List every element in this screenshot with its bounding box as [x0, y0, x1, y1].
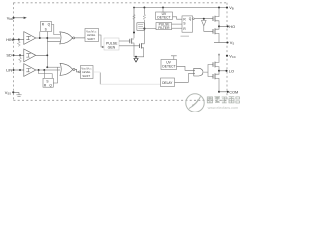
svg-text:FILTER: FILTER — [158, 26, 170, 30]
svg-text:GEN: GEN — [108, 46, 116, 50]
svg-text:LO: LO — [229, 68, 234, 73]
svg-text:SD: SD — [6, 53, 12, 58]
svg-text:LEVEL: LEVEL — [87, 33, 96, 37]
svg-text:LIN: LIN — [6, 67, 12, 72]
svg-text:HO: HO — [229, 24, 235, 29]
svg-text:DELAY: DELAY — [162, 81, 173, 85]
svg-text:S: S — [46, 80, 48, 84]
svg-text:DETECT: DETECT — [157, 16, 170, 20]
svg-text:S: S — [183, 22, 185, 26]
svg-text:DETECT: DETECT — [162, 65, 175, 69]
svg-text:www.elecfans.com: www.elecfans.com — [208, 106, 239, 110]
svg-text:SHIFT: SHIFT — [82, 74, 90, 78]
svg-text:LEVEL: LEVEL — [82, 70, 91, 74]
svg-text:COM: COM — [229, 90, 238, 95]
svg-text:SHIFT: SHIFT — [87, 37, 95, 41]
svg-text:HIN: HIN — [6, 37, 13, 42]
svg-text:S: S — [45, 28, 47, 32]
